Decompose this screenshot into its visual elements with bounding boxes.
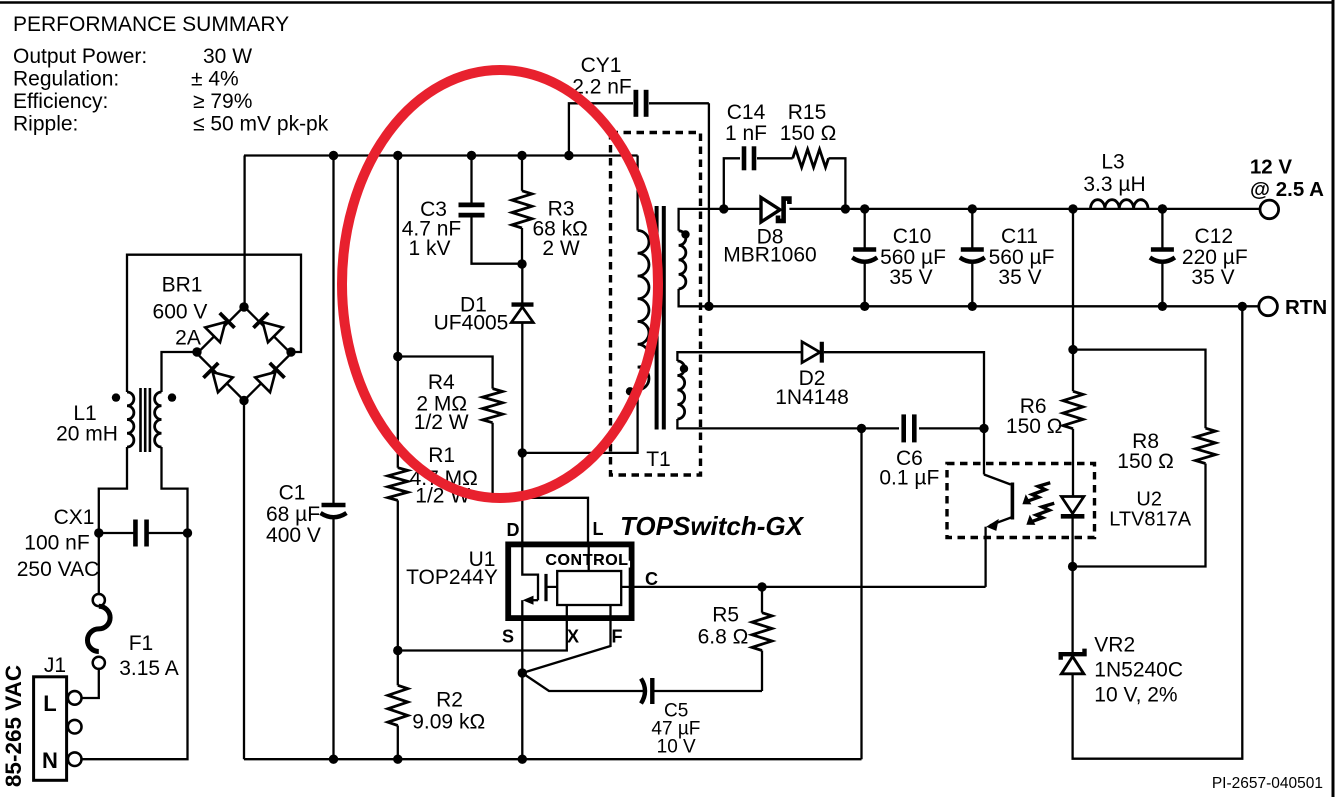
node R8 branch — [1068, 345, 1077, 354]
wire L1 right to BR1 left — [162, 352, 198, 392]
wire L1 right bottom to CX1 — [162, 447, 188, 533]
node VR2 return RTN — [1238, 302, 1247, 311]
wire R3 top — [521, 156, 523, 191]
resistor R4 — [483, 389, 503, 423]
transformer T1 boundary (dashed) — [611, 133, 701, 476]
svg-text:35 V: 35 V — [889, 266, 932, 289]
wire secondary top to D8 — [679, 209, 762, 231]
wire snubber left — [724, 158, 740, 209]
svg-text:10 V: 10 V — [657, 737, 696, 758]
node R5 top — [757, 582, 766, 591]
svg-text:X: X — [567, 627, 579, 647]
wire D8 to 12V rail — [789, 208, 1260, 210]
svg-text:LTV817A: LTV817A — [1109, 509, 1192, 531]
svg-text:L: L — [43, 691, 56, 716]
svg-text:30 W: 30 W — [203, 45, 252, 68]
resistor R8 — [1196, 428, 1216, 463]
svg-text:Regulation:: Regulation: — [13, 68, 119, 91]
node C11 bottom — [968, 302, 977, 311]
node snubber left — [719, 204, 728, 213]
node R3 rail — [517, 151, 526, 160]
node R2 bottom — [393, 755, 402, 764]
capacitor C6 — [862, 427, 900, 429]
T1 core — [655, 206, 659, 430]
phase dot L1 left — [112, 393, 120, 401]
svg-text:RTN: RTN — [1285, 296, 1327, 319]
wire F pin diagonal — [522, 618, 610, 673]
T1 bias winding — [677, 361, 684, 419]
svg-text:R1: R1 — [428, 444, 455, 467]
svg-text:VR2: VR2 — [1094, 634, 1135, 657]
node BR1 top — [239, 302, 248, 311]
resistor R2 — [397, 651, 399, 686]
node C12 bottom — [1158, 302, 1167, 311]
wire top rail — [244, 154, 638, 156]
svg-text:1N5240C: 1N5240C — [1094, 659, 1183, 682]
wire drain to primary bottom — [522, 390, 637, 453]
opto phototransistor — [1011, 483, 1015, 520]
terminal 12V — [1260, 200, 1279, 219]
svg-text:10 V, 2%: 10 V, 2% — [1094, 684, 1177, 707]
ic U1 body — [508, 544, 631, 618]
bridge rectifier BR1 — [197, 307, 244, 354]
T1 primary winding — [638, 231, 649, 390]
svg-text:35 V: 35 V — [998, 266, 1041, 289]
capacitor C1 — [332, 156, 334, 504]
node VR2 top — [1068, 562, 1077, 571]
wire X inside — [566, 605, 568, 618]
svg-text:TOP244Y: TOP244Y — [406, 566, 498, 589]
wire CY1 right to RTN — [708, 103, 710, 306]
opto light arrows — [1019, 475, 1050, 509]
svg-text:20 mH: 20 mH — [56, 423, 118, 446]
opto LED — [1061, 497, 1084, 514]
node BR1 left — [192, 347, 201, 356]
wire R3 bottom — [521, 228, 523, 264]
svg-text:± 4%: ± 4% — [191, 68, 239, 91]
wire R4 top — [398, 357, 493, 389]
svg-text:100 nF: 100 nF — [24, 532, 89, 555]
wire bias bottom to C6 left — [677, 419, 861, 428]
phase dot T1 bias — [680, 365, 688, 373]
svg-text:150 Ω: 150 Ω — [1117, 450, 1174, 473]
svg-text:≤ 50 mV pk-pk: ≤ 50 mV pk-pk — [193, 113, 329, 136]
wire D2 to C6 node — [824, 352, 984, 428]
svg-text:85-265 VAC: 85-265 VAC — [1, 665, 26, 787]
node C3 rail — [467, 151, 476, 160]
node C10 bottom — [860, 302, 869, 311]
svg-text:1 kV: 1 kV — [408, 237, 450, 260]
wire VR2 return — [1073, 306, 1243, 758]
svg-text:PI-2657-040501: PI-2657-040501 — [1212, 775, 1323, 792]
wire R4 to L pin — [493, 423, 588, 543]
wire CX1 to fuse — [98, 533, 100, 594]
capacitor C12 — [1161, 209, 1163, 248]
svg-text:CX1: CX1 — [54, 506, 95, 529]
svg-text:J1: J1 — [44, 654, 66, 677]
svg-text:400 V: 400 V — [266, 524, 321, 547]
wire S pin to ground — [521, 618, 523, 759]
svg-text:D: D — [507, 520, 520, 540]
U1 internal MOSFET — [522, 547, 538, 600]
wire R1 to X junction — [397, 500, 399, 650]
capacitor C14 — [742, 146, 747, 170]
svg-text:35 V: 35 V — [1191, 266, 1234, 289]
node C12 top — [1158, 204, 1167, 213]
inductor L1 (common-mode choke) — [127, 392, 134, 447]
svg-text:6.8 Ω: 6.8 Ω — [698, 626, 749, 649]
svg-text:N: N — [42, 748, 58, 773]
resistor R5 — [761, 587, 763, 613]
wire R6 to LED — [1072, 429, 1074, 497]
wire junction to C5 — [522, 673, 645, 691]
wire F inside — [609, 605, 611, 618]
border frame right — [1332, 0, 1335, 797]
node snubber right — [841, 204, 850, 213]
wire CX1 to J1 N pin — [82, 533, 188, 759]
node BR1 right — [286, 347, 295, 356]
phase dot T1 primary — [626, 387, 634, 395]
node X junction on R2 — [393, 646, 402, 655]
wire R1 branch vertical — [397, 156, 399, 468]
wire X pin run — [398, 618, 567, 651]
phase dot T1 secondary — [681, 230, 689, 238]
wire control block top to L — [588, 546, 590, 571]
wire LED to VR2 node — [1071, 516, 1073, 654]
svg-text:C1: C1 — [279, 482, 306, 505]
svg-text:TOPSwitch-GX: TOPSwitch-GX — [620, 511, 805, 541]
zener diode VR2 — [1061, 649, 1085, 660]
node CY1 left rail — [564, 151, 573, 160]
diode D2 — [802, 342, 820, 363]
wire L1 left bottom to CX1 — [99, 447, 127, 533]
svg-text:L: L — [593, 519, 604, 539]
svg-text:CONTROL: CONTROL — [545, 552, 628, 569]
svg-text:MBR1060: MBR1060 — [723, 244, 816, 267]
svg-text:68 µF: 68 µF — [266, 503, 320, 526]
node clamp junction — [517, 259, 526, 268]
svg-text:Efficiency:: Efficiency: — [13, 90, 108, 113]
svg-text:R5: R5 — [712, 604, 739, 627]
resistor R15 — [793, 149, 829, 167]
svg-text:BR1: BR1 — [162, 274, 203, 297]
wire L1 left to top rail — [127, 255, 301, 392]
terminal RTN — [1259, 297, 1278, 316]
fuse F1 — [93, 594, 105, 606]
node C1 bottom — [329, 755, 338, 764]
wire R8 bottom — [1073, 464, 1206, 567]
svg-text:CY1: CY1 — [581, 54, 622, 77]
svg-text:Output Power:: Output Power: — [13, 45, 147, 68]
svg-text:0.1 µF: 0.1 µF — [879, 467, 939, 490]
wire fuse to L pin — [82, 669, 99, 698]
capacitor C11 — [971, 209, 973, 248]
svg-text:1N4148: 1N4148 — [775, 386, 849, 409]
wire R8 branch top — [1073, 350, 1206, 429]
wire C pin run — [632, 586, 986, 588]
svg-text:@ 2.5 A: @ 2.5 A — [1250, 178, 1324, 201]
svg-text:Ripple:: Ripple: — [13, 113, 78, 136]
svg-text:3.15 A: 3.15 A — [119, 657, 179, 680]
node CY1/RTN — [704, 302, 713, 311]
resistor R1 — [388, 468, 408, 501]
node CX1 right — [183, 528, 192, 537]
svg-text:600 V: 600 V — [153, 301, 208, 324]
node L3 right — [1158, 204, 1167, 213]
resistor R6 — [1063, 391, 1083, 428]
wire snubber right — [829, 158, 846, 209]
svg-text:1/2 W: 1/2 W — [414, 411, 469, 434]
svg-text:U2: U2 — [1136, 488, 1162, 510]
svg-text:2A: 2A — [175, 327, 201, 350]
wire rail to primary top — [636, 156, 638, 231]
highlight ellipse (red) — [342, 70, 658, 498]
node CX1 left — [94, 528, 103, 537]
svg-text:C14: C14 — [727, 101, 766, 124]
svg-text:R4: R4 — [428, 371, 455, 394]
svg-text:C12: C12 — [1195, 225, 1234, 248]
svg-text:S: S — [502, 627, 514, 647]
border frame top — [0, 1, 1334, 4]
wire bias top to D2 — [677, 352, 802, 361]
svg-text:F1: F1 — [129, 632, 154, 655]
svg-text:3.3 µH: 3.3 µH — [1083, 173, 1145, 196]
ic U1 control block — [557, 571, 621, 605]
node BR1 bottom — [239, 396, 248, 405]
node C1 top — [329, 151, 338, 160]
node C10 top — [860, 204, 869, 213]
svg-text:≥ 79%: ≥ 79% — [193, 90, 252, 113]
connector J1 — [34, 677, 67, 781]
node drain junction — [518, 448, 527, 457]
svg-text:L3: L3 — [1101, 151, 1124, 174]
node S/F/C5 junction — [518, 668, 527, 677]
node C11 top — [968, 204, 977, 213]
svg-text:PERFORMANCE SUMMARY: PERFORMANCE SUMMARY — [13, 13, 289, 36]
T1 secondary winding — [679, 231, 686, 289]
capacitor C10 — [864, 209, 866, 248]
svg-text:C10: C10 — [893, 225, 932, 248]
node C6 left — [857, 424, 866, 433]
capacitor C3 — [470, 156, 472, 204]
svg-text:1 nF: 1 nF — [725, 122, 767, 145]
optocoupler U2 boundary (dashed) — [947, 464, 1095, 538]
node S ground — [518, 755, 527, 764]
svg-text:F: F — [612, 627, 623, 647]
diode D8 (Schottky) — [761, 198, 780, 223]
node rail R4/R1 branch — [393, 151, 402, 160]
wire ground rail riser to C6 — [860, 428, 862, 759]
svg-text:12 V: 12 V — [1250, 156, 1292, 179]
svg-text:2 W: 2 W — [542, 237, 580, 260]
node L3 left — [1068, 204, 1077, 213]
svg-text:C11: C11 — [1001, 225, 1038, 248]
node C6 right — [979, 424, 988, 433]
wire bottom ground rail — [244, 758, 862, 760]
svg-text:250 VAC: 250 VAC — [17, 558, 100, 581]
svg-text:R2: R2 — [436, 689, 463, 712]
wire BR1 top to rail — [243, 156, 245, 308]
diode D1 — [521, 264, 523, 303]
capacitor CY1 — [569, 103, 633, 155]
capacitor CX1 — [133, 520, 138, 547]
svg-text:UF4005: UF4005 — [434, 312, 509, 335]
svg-text:150 Ω: 150 Ω — [1006, 415, 1063, 438]
wire opto emitter — [990, 517, 1012, 525]
wire 12V to R6 — [1072, 209, 1074, 391]
resistor R3 — [512, 191, 532, 228]
phase dot L1 right — [168, 393, 176, 401]
svg-text:T1: T1 — [646, 448, 671, 471]
capacitor C5 — [641, 679, 645, 704]
svg-text:9.09 kΩ: 9.09 kΩ — [412, 711, 485, 734]
inductor L3 — [1091, 200, 1149, 209]
svg-text:R15: R15 — [788, 101, 827, 124]
wire opto collector — [983, 428, 985, 474]
wire secondary bottom to RTN rail — [679, 289, 1259, 306]
wire drain to D pin — [521, 453, 523, 543]
svg-text:150 Ω: 150 Ω — [780, 122, 837, 145]
wire BR1 bottom to ground rail — [243, 401, 245, 760]
node R4/R1 top junction — [393, 352, 402, 361]
